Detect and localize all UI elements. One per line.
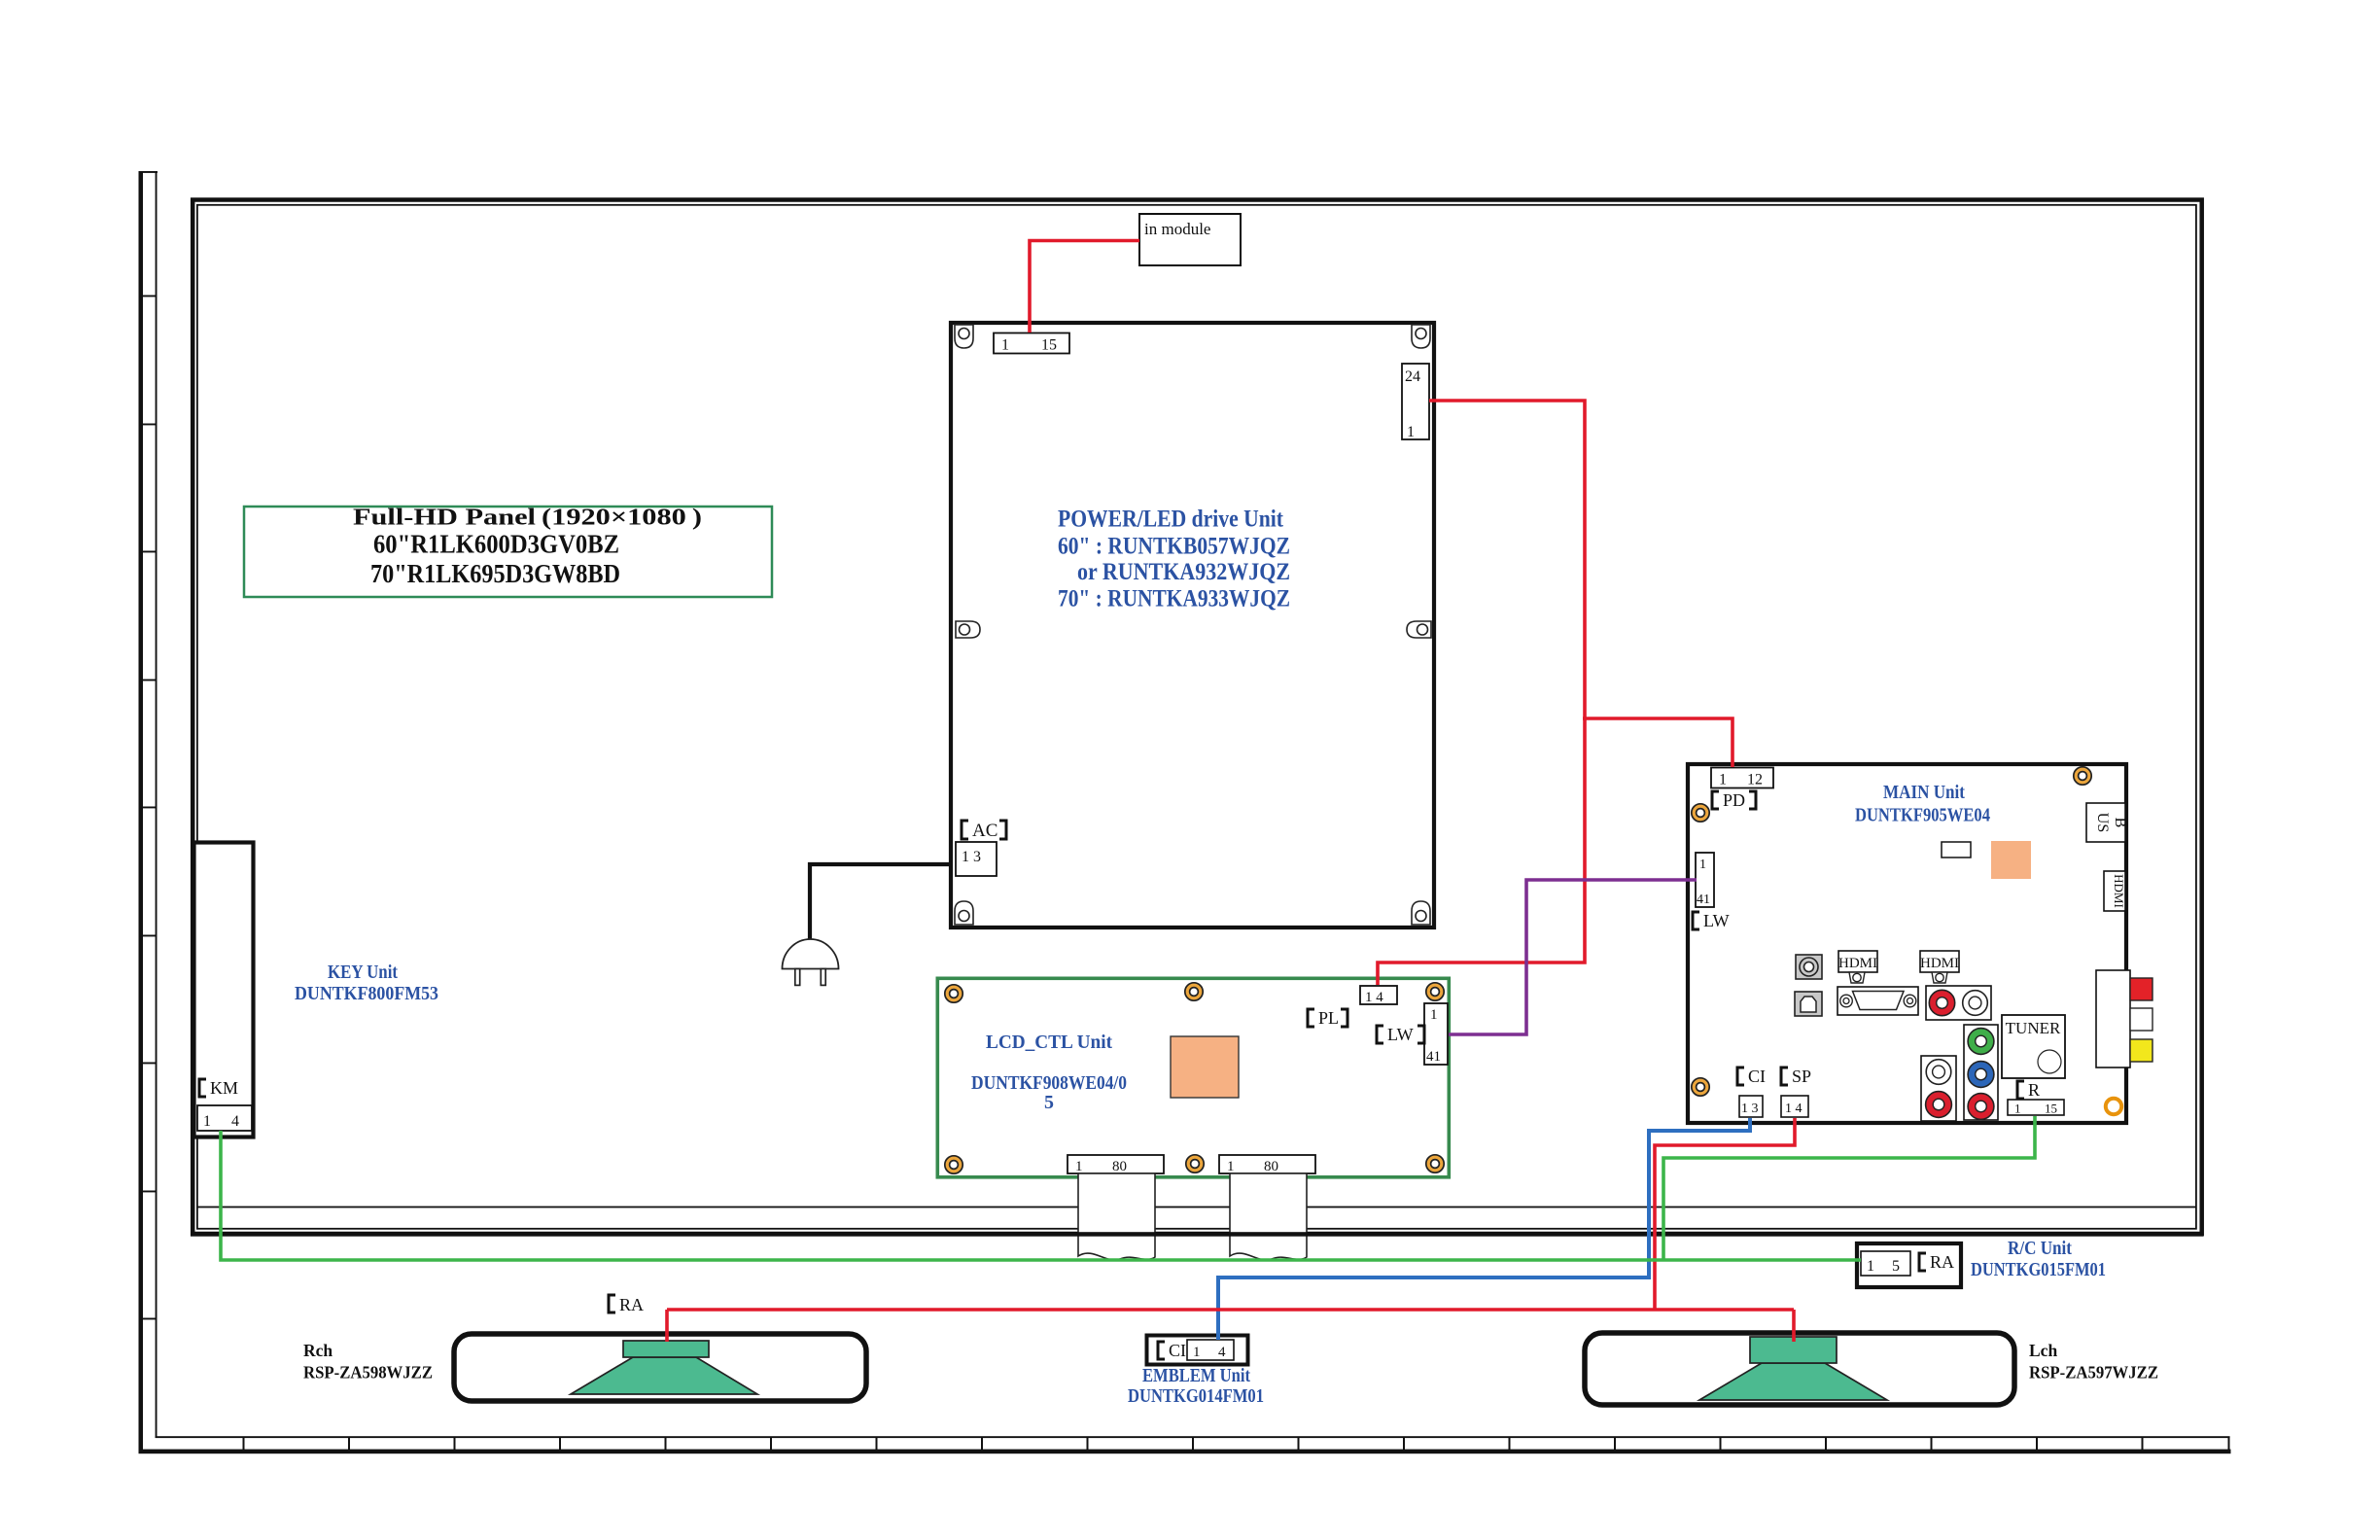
svg-text:in module: in module	[1144, 220, 1210, 238]
svg-text:DUNTKF908WE04/0: DUNTKF908WE04/0	[971, 1072, 1127, 1094]
EMBLEM unit title text	[1128, 1365, 1264, 1407]
ribbon cable right from LCD_CTL	[1230, 1173, 1307, 1260]
svg-text:Lch: Lch	[2029, 1341, 2057, 1360]
svg-text:41: 41	[1697, 892, 1710, 907]
LCD_CTL screw hole bottom-mid	[1186, 1155, 1204, 1172]
svg-text:1 4: 1 4	[1785, 1102, 1802, 1116]
MAIN unit title text	[1855, 782, 1990, 826]
POWER screw tab mid-right	[1407, 621, 1431, 638]
Rch RA label	[609, 1295, 644, 1314]
wire blue MAIN CI to EMBLEM	[1218, 1118, 1750, 1340]
svg-text:24: 24	[1405, 368, 1420, 385]
svg-text:1: 1	[1193, 1345, 1201, 1360]
POWER screw tab mid-left	[956, 621, 980, 638]
MAIN connector LW 1-41	[1696, 853, 1714, 907]
svg-text:1 4: 1 4	[1365, 990, 1383, 1005]
svg-text:DUNTKG015FM01: DUNTKG015FM01	[1971, 1259, 2106, 1280]
svg-text:PD: PD	[1723, 790, 1745, 810]
svg-text:HDMI: HDMI	[1920, 956, 1959, 971]
MAIN connector R 1-15	[2008, 1100, 2064, 1116]
KEY KM label	[199, 1078, 238, 1098]
wire green MAIN R to junction	[1663, 1116, 2035, 1260]
svg-text:or RUNTKA932WJQZ: or RUNTKA932WJQZ	[1077, 559, 1290, 585]
svg-text:RSP-ZA597WJZZ: RSP-ZA597WJZZ	[2029, 1363, 2158, 1382]
MAIN R label	[2017, 1080, 2040, 1100]
svg-text:1: 1	[1719, 772, 1727, 788]
R/C unit title text	[1971, 1238, 2106, 1280]
ribbon cable left from LCD_CTL	[1078, 1173, 1155, 1260]
R/C unit box	[1857, 1243, 1961, 1287]
POWER AC connector 1-3 box	[956, 842, 997, 876]
svg-text:1: 1	[1001, 337, 1009, 354]
svg-text:15: 15	[2045, 1102, 2057, 1116]
KEY unit board	[194, 843, 254, 1137]
svg-text:12: 12	[1747, 772, 1763, 788]
wire green KEY KM to R/C	[221, 1131, 1861, 1260]
svg-text:1 3: 1 3	[962, 849, 981, 865]
svg-text:80: 80	[1264, 1159, 1278, 1174]
LCD_CTL title text	[971, 1032, 1127, 1113]
svg-text:1: 1	[203, 1113, 211, 1130]
svg-text:R/C Unit: R/C Unit	[2008, 1238, 2072, 1259]
svg-text:4: 4	[231, 1113, 239, 1130]
POWER/LED drive unit board	[951, 323, 1434, 927]
MAIN TUNER box	[2002, 1015, 2065, 1078]
MAIN small white rect	[1942, 842, 1971, 857]
MAIN screw hole top-right	[2074, 767, 2091, 785]
svg-text:DUNTKF800FM53: DUNTKF800FM53	[295, 983, 438, 1004]
KEY unit title text	[295, 962, 438, 1004]
svg-text:Rch: Rch	[303, 1341, 332, 1360]
MAIN side AV connector block	[2096, 970, 2130, 1067]
svg-text:1: 1	[1699, 857, 1706, 872]
svg-text:1: 1	[1227, 1159, 1235, 1174]
wire red MAIN SP to speakers	[667, 1118, 1795, 1342]
LCD_CTL unit board (green)	[937, 978, 1449, 1177]
MAIN screw hole bottom-left	[1692, 1078, 1709, 1096]
svg-text:MAIN Unit: MAIN Unit	[1883, 782, 1965, 803]
svg-text:HDMI: HDMI	[2112, 874, 2126, 908]
svg-text:TUNER: TUNER	[2006, 1019, 2061, 1037]
in module box	[1139, 214, 1241, 265]
sheet left ruler thin line	[156, 171, 157, 1438]
svg-text:LCD_CTL Unit: LCD_CTL Unit	[986, 1032, 1112, 1053]
MAIN connector CI 1-3	[1739, 1096, 1763, 1117]
Full-HD Panel label box	[244, 506, 772, 598]
MAIN component RCA column (G/B/R)	[1964, 1025, 1998, 1120]
EMBLEM unit box	[1147, 1336, 1248, 1365]
sheet bottom border thick line	[139, 1450, 2231, 1454]
LCD_CTL screw hole top-right	[1426, 983, 1444, 1000]
POWER screw tab bottom-left	[955, 901, 973, 925]
MAIN connector PD 1-12	[1711, 768, 1773, 788]
svg-text:EMBLEM Unit: EMBLEM Unit	[1142, 1365, 1250, 1386]
sheet bottom ruler ticks	[243, 1437, 2230, 1450]
svg-text:PL: PL	[1318, 1008, 1339, 1028]
svg-text:1: 1	[1407, 424, 1415, 440]
svg-text:KM: KM	[210, 1078, 238, 1098]
TV inner bottom thin line	[197, 1207, 2196, 1208]
MAIN screw hole bottom-right	[2106, 1099, 2121, 1114]
EMBLEM connector 1-4	[1187, 1340, 1234, 1360]
MAIN SP label	[1781, 1067, 1811, 1086]
svg-text:DUNTKG014FM01: DUNTKG014FM01	[1128, 1385, 1264, 1407]
wire red from POWER 24 to LCD_CTL PL	[1378, 401, 1585, 985]
POWER connector 24-1 pin header	[1402, 364, 1429, 440]
sheet left border thick line	[139, 171, 144, 1453]
sheet bottom ruler thin line	[156, 1436, 2230, 1438]
EMBLEM CI label	[1158, 1341, 1186, 1360]
MAIN RCA pair red/white	[1926, 986, 1991, 1020]
MAIN connector SP 1-4	[1781, 1096, 1808, 1117]
LCD_CTL connector PL 1-4	[1360, 986, 1397, 1005]
Rch speaker label text	[303, 1341, 433, 1382]
POWER screw tab top-left	[955, 325, 973, 348]
MAIN LW label	[1693, 911, 1730, 930]
POWER connector 1-15 pin header	[994, 333, 1069, 354]
svg-text:5: 5	[1892, 1258, 1900, 1275]
svg-text:LW: LW	[1387, 1025, 1414, 1044]
R/C connector 1-5	[1861, 1251, 1910, 1276]
LCD_CTL connector LW 1-41	[1424, 1003, 1448, 1065]
svg-text:80: 80	[1112, 1159, 1127, 1174]
MAIN screw hole left	[1692, 804, 1709, 822]
MAIN USB box (rotated text)	[2086, 803, 2128, 842]
svg-text:70"R1LK695D3GW8BD: 70"R1LK695D3GW8BD	[370, 559, 620, 588]
wire red branch to MAIN PD	[1583, 718, 1732, 767]
svg-text:RA: RA	[1930, 1252, 1954, 1272]
svg-text:60" : RUNTKB057WJQZ: 60" : RUNTKB057WJQZ	[1058, 534, 1290, 560]
svg-text:HDMI: HDMI	[1838, 956, 1877, 971]
LCD_CTL PL label	[1308, 1008, 1347, 1028]
svg-text:R: R	[2028, 1080, 2040, 1100]
Lch speaker enclosure	[1585, 1333, 2014, 1405]
svg-text:41: 41	[1426, 1049, 1441, 1065]
MAIN HDMI label box 1	[1838, 951, 1877, 983]
wire purple MAIN LW to LCD_CTL LW	[1449, 880, 1697, 1034]
svg-text:1: 1	[1075, 1159, 1083, 1174]
TV outline inner thin frame	[197, 205, 2196, 1229]
MAIN unit board	[1688, 764, 2126, 1123]
svg-text:POWER/LED drive Unit: POWER/LED drive Unit	[1058, 507, 1284, 533]
wire red from in-module to POWER 1-15	[1030, 241, 1139, 333]
svg-text:LW: LW	[1703, 911, 1730, 930]
LCD_CTL connector 1-80 left	[1067, 1155, 1164, 1174]
MAIN side AV white jack	[2130, 1008, 2152, 1031]
svg-text:KEY Unit: KEY Unit	[328, 962, 398, 983]
svg-text:CI: CI	[1169, 1341, 1186, 1360]
Rch speaker enclosure	[454, 1334, 866, 1401]
svg-text:DUNTKF905WE04: DUNTKF905WE04	[1855, 805, 1990, 826]
svg-text:B: B	[2112, 818, 2128, 828]
Rch speaker driver	[571, 1341, 757, 1394]
svg-text:70" : RUNTKA933WJQZ: 70" : RUNTKA933WJQZ	[1058, 586, 1290, 612]
svg-text:15: 15	[1041, 337, 1057, 354]
wire black AC cord	[810, 864, 952, 940]
MAIN side AV red jack	[2130, 978, 2152, 1000]
TV outline outer thick frame	[192, 200, 2202, 1235]
svg-text:1: 1	[1430, 1007, 1438, 1023]
Lch speaker label text	[2029, 1341, 2158, 1382]
MAIN IC (orange)	[1991, 841, 2031, 879]
MAIN round jack (gray)	[1796, 955, 1822, 979]
AC plug	[783, 939, 839, 985]
MAIN CI label	[1737, 1067, 1766, 1086]
LCD_CTL screw hole bottom-left	[945, 1156, 962, 1173]
svg-text:1 3: 1 3	[1741, 1102, 1759, 1116]
MAIN VGA connector	[1837, 987, 1918, 1015]
svg-text:US: US	[2094, 813, 2111, 832]
POWER screw tab top-right	[1412, 325, 1430, 348]
svg-text:1: 1	[2014, 1102, 2021, 1116]
svg-text:RA: RA	[619, 1295, 644, 1314]
POWER unit title text	[1058, 507, 1290, 612]
svg-text:60"R1LK600D3GV0BZ: 60"R1LK600D3GV0BZ	[373, 530, 619, 559]
LCD_CTL connector 1-80 right	[1219, 1155, 1315, 1174]
LCD_CTL LW label	[1377, 1025, 1424, 1044]
svg-text:CI: CI	[1748, 1067, 1766, 1086]
KEY connector KM 1-4	[197, 1105, 252, 1131]
POWER screw tab bottom-right	[1412, 901, 1430, 925]
svg-text:5: 5	[1044, 1092, 1054, 1113]
MAIN USB-B port (gray)	[1795, 992, 1822, 1016]
MAIN PD label	[1712, 790, 1756, 810]
svg-text:Full-HD Panel (1920×1080 ): Full-HD Panel (1920×1080 )	[353, 506, 702, 531]
R/C RA label	[1919, 1252, 1954, 1272]
LCD_CTL screw hole top-left	[945, 985, 962, 1002]
LCD_CTL IC (orange)	[1171, 1036, 1239, 1098]
MAIN RCA column white/red	[1921, 1056, 1956, 1121]
POWER AC label	[962, 821, 1006, 841]
svg-text:1: 1	[1867, 1258, 1874, 1275]
svg-text:SP: SP	[1792, 1067, 1811, 1086]
svg-text:RSP-ZA598WJZZ: RSP-ZA598WJZZ	[303, 1363, 433, 1382]
svg-text:4: 4	[1218, 1345, 1226, 1360]
MAIN HDMI rotated box	[2104, 871, 2126, 911]
MAIN side AV yellow jack	[2130, 1039, 2152, 1062]
MAIN HDMI label box 2	[1920, 951, 1959, 983]
LCD_CTL screw hole bottom-right	[1426, 1155, 1444, 1172]
LCD_CTL screw hole top-mid	[1185, 983, 1203, 1000]
Lch speaker driver	[1699, 1337, 1887, 1400]
svg-text:AC: AC	[972, 821, 997, 841]
TV outer frame bottom thick line (over ribbons)	[191, 1232, 2204, 1237]
sheet left ruler top cap	[139, 171, 158, 173]
sheet left ruler ticks	[139, 296, 157, 1320]
